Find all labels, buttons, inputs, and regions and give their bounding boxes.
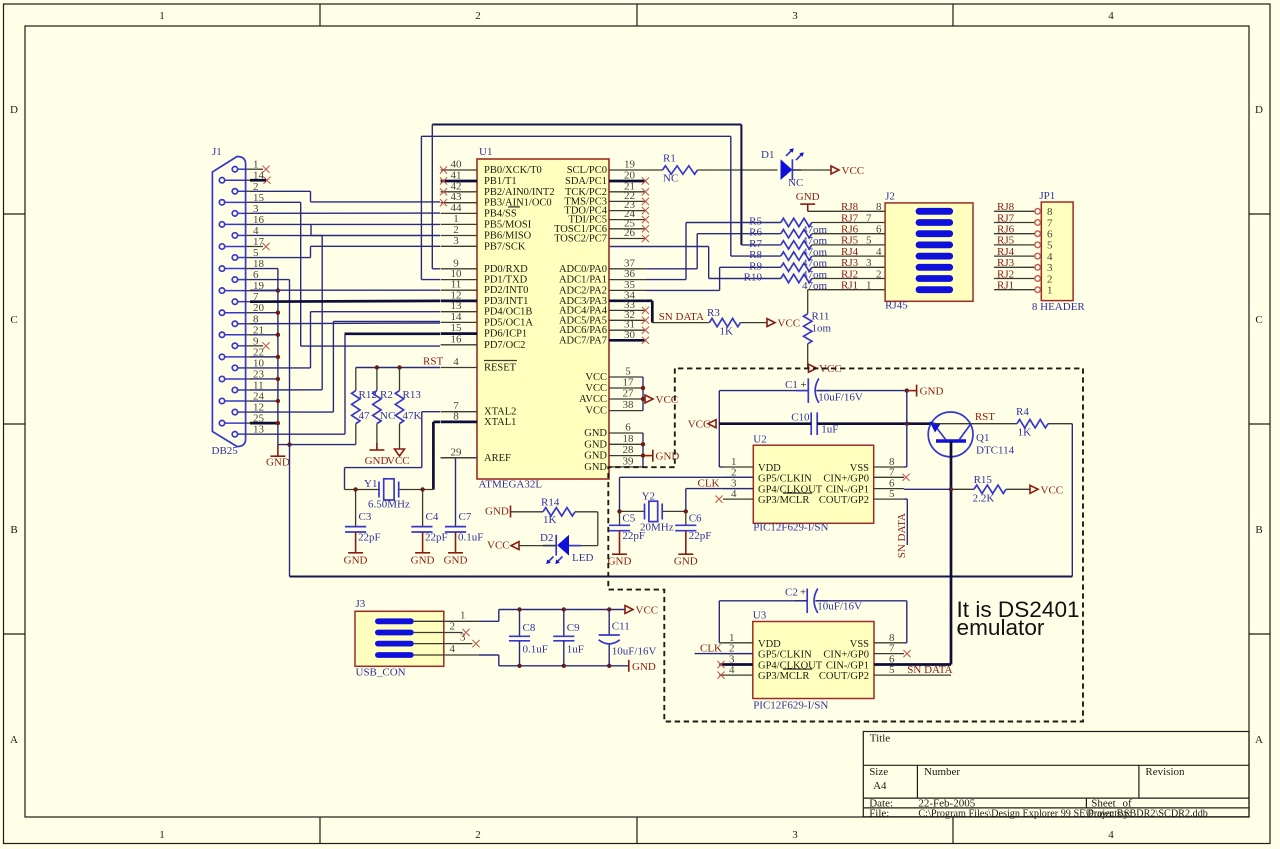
svg-text:1: 1 [460, 609, 466, 621]
wire RESET net [356, 367, 440, 369]
wire XTAL1 to Y1 right (thick) [433, 421, 440, 424]
svg-text:GND: GND [674, 556, 698, 568]
svg-text:2.2K: 2.2K [973, 493, 995, 505]
svg-text:1K: 1K [543, 514, 557, 526]
J1 pin 11 [232, 387, 237, 392]
svg-text:COUT/GP2: COUT/GP2 [819, 671, 869, 682]
U2 pin 2 [723, 476, 753, 478]
resistor R13 47K [399, 368, 401, 391]
J3 contact bar pin 3 [375, 641, 414, 647]
crystal Y1 6.50MHz [345, 489, 380, 491]
svg-text:J2: J2 [885, 191, 895, 203]
U2 pin 8 [874, 466, 904, 468]
svg-text:RESET: RESET [484, 363, 517, 374]
resistor R8 47om [731, 255, 781, 257]
U1 pin 38 VCC [609, 410, 643, 412]
svg-text:Number: Number [924, 766, 960, 778]
U1 pin 25 TOSC1/PC6 [609, 228, 645, 230]
JP1 pin 6 RJ6 [994, 233, 1035, 235]
ground symbol C7 [448, 552, 463, 554]
svg-text:14: 14 [451, 311, 463, 323]
wire RJ1 row from R11 [808, 289, 885, 291]
svg-text:XTAL1: XTAL1 [484, 417, 516, 428]
svg-text:RST: RST [975, 411, 995, 423]
U1 pin 40 PB0/XCK/T0 [441, 169, 477, 171]
svg-text:C1: C1 [785, 379, 798, 391]
J1 pin 24 [219, 398, 224, 403]
svg-text:CIN-/GP1: CIN-/GP1 [826, 485, 869, 496]
resistor R15 2.2K [951, 488, 974, 490]
svg-text:TOSC2/PC7: TOSC2/PC7 [554, 234, 607, 245]
U2 pin 7 [874, 476, 904, 478]
svg-text:RJ2: RJ2 [841, 268, 858, 280]
svg-text:PB7/SCK: PB7/SCK [484, 241, 526, 252]
svg-text:B: B [10, 524, 17, 536]
U3 pin 8 [874, 642, 904, 644]
wire AREF to C7 [441, 457, 477, 459]
wire J3.4 to GND row [414, 654, 479, 656]
resistor R10 47om [709, 278, 781, 280]
J2 contact bar [916, 208, 954, 215]
wire J1.12 to U1.14 [250, 411, 333, 413]
svg-text:VCC: VCC [487, 540, 510, 552]
svg-text:7: 7 [866, 212, 872, 224]
U3 pin 2 [719, 653, 753, 655]
svg-text:22pF: 22pF [425, 532, 448, 544]
J2 contact bar [916, 286, 954, 293]
svg-text:GND: GND [608, 556, 632, 568]
capacitor C3 22pF [355, 490, 357, 527]
svg-text:3: 3 [1047, 262, 1053, 274]
svg-text:10uF/16V: 10uF/16V [818, 392, 863, 404]
svg-text:NC: NC [788, 177, 803, 189]
svg-text:39: 39 [623, 455, 635, 467]
svg-text:GND: GND [344, 555, 368, 567]
wire J1.10 to U1.13 [250, 367, 311, 369]
svg-text:GND: GND [365, 455, 389, 467]
svg-text:NC: NC [663, 173, 678, 185]
svg-text:R9: R9 [749, 260, 762, 272]
svg-text:D2: D2 [540, 532, 553, 544]
svg-text:RJ45: RJ45 [885, 300, 908, 312]
resistor R5 47om [686, 222, 781, 224]
svg-text:4: 4 [1108, 10, 1114, 22]
U3 pin 7 [874, 653, 904, 655]
U1 pin 37 ADC0/PA0 [609, 268, 645, 270]
svg-text:RJ6: RJ6 [841, 224, 859, 236]
U1 pin 13 PD4/OC1B [441, 311, 477, 313]
svg-text:5: 5 [889, 664, 895, 676]
capacitor C5 22pF [619, 511, 621, 524]
svg-text:GND: GND [266, 457, 290, 469]
power port VCC below R11 [809, 364, 817, 372]
wire VSS vertical [906, 391, 908, 467]
svg-text:C11: C11 [612, 621, 630, 633]
svg-text:8 HEADER: 8 HEADER [1032, 301, 1086, 313]
U2 pin 3 [723, 488, 753, 490]
svg-text:4: 4 [1108, 829, 1114, 841]
U1 pin 16 PD7/OC2 [441, 344, 477, 346]
J1 pin 21 [219, 332, 224, 337]
svg-text:DTC114: DTC114 [976, 445, 1015, 457]
wire top RXD down to R7 (thick) [740, 125, 742, 245]
svg-text:CIN+/GP0: CIN+/GP0 [823, 473, 869, 484]
svg-text:C7: C7 [459, 511, 472, 523]
U1 pin 36 ADC1/PA1 [609, 279, 645, 281]
svg-text:Title: Title [870, 732, 891, 744]
svg-text:USB_CON: USB_CON [356, 667, 406, 679]
svg-text:C4: C4 [426, 511, 439, 523]
J1 pin 3 [232, 211, 237, 216]
U1 pin 43 PB3/AIN1/OC0 [441, 202, 477, 204]
resistor R2 NC [376, 368, 378, 391]
svg-text:10uF/16V: 10uF/16V [817, 600, 862, 612]
resistor R6 47om [697, 233, 781, 235]
wire U2 VDD [718, 391, 720, 467]
svg-text:RJ7: RJ7 [997, 212, 1015, 224]
chip U1 ATMEGA32L body [477, 159, 609, 479]
J1 pin 8 [232, 321, 237, 326]
svg-text:GP5/CLKIN: GP5/CLKIN [758, 473, 812, 484]
svg-text:PD4/OC1B: PD4/OC1B [484, 307, 532, 318]
svg-text:PB2/AIN0/INT2: PB2/AIN0/INT2 [484, 187, 555, 198]
U1 pin 14 PD5/OC1A [441, 321, 477, 323]
svg-text:R7: R7 [749, 238, 762, 250]
J1 pin 20 [219, 310, 224, 315]
wire J1.2 to U1.43 [250, 190, 311, 192]
svg-text:NC: NC [380, 410, 395, 422]
U2 pin 1 [723, 466, 753, 468]
svg-text:PB0/XCK/T0: PB0/XCK/T0 [484, 165, 542, 176]
wire J1.15 to U1.16 [250, 201, 301, 203]
svg-text:SDA/PC1: SDA/PC1 [565, 176, 607, 187]
svg-text:SCL/PC0: SCL/PC0 [567, 165, 607, 176]
svg-text:1uF: 1uF [567, 644, 584, 656]
resistor R7 47om [741, 244, 780, 246]
svg-text:U3: U3 [753, 610, 767, 622]
wire J1.16 jog to U1.2 [310, 224, 312, 235]
wire J1.6 down to bottom rail [250, 279, 290, 281]
svg-text:R2: R2 [380, 389, 393, 401]
wire bottom rail to R4/RST [290, 575, 1073, 577]
svg-text:RJ3: RJ3 [841, 257, 859, 269]
svg-text:VDD: VDD [758, 639, 781, 650]
U1 pin 24 TDI/PC5 [609, 219, 645, 221]
svg-text:Size: Size [869, 766, 888, 778]
svg-text:PD7/OC2: PD7/OC2 [484, 340, 525, 351]
svg-text:R10: R10 [744, 272, 763, 284]
wire C1 left [719, 390, 808, 392]
svg-text:VCC: VCC [688, 419, 711, 431]
J1 pin 23 [219, 376, 224, 381]
svg-text:R4: R4 [1016, 406, 1029, 418]
J3 contact bar pin 2 [375, 630, 414, 636]
resistor R12 47 [355, 368, 357, 391]
JP1 pin 1 RJ1 [994, 289, 1035, 291]
svg-text:ADC7/PA7: ADC7/PA7 [559, 335, 607, 346]
connector JP1 8 HEADER [1041, 202, 1073, 301]
svg-text:28: 28 [623, 444, 635, 456]
svg-text:VCC: VCC [842, 165, 865, 177]
svg-text:U1: U1 [479, 146, 492, 158]
svg-text:ADC2/PA2: ADC2/PA2 [559, 285, 607, 296]
ground symbol C3 [348, 552, 363, 554]
svg-text:Y1: Y1 [364, 478, 377, 490]
svg-text:PB5/MOSI: PB5/MOSI [484, 219, 532, 230]
svg-text:5: 5 [1047, 240, 1053, 252]
svg-text:4: 4 [876, 246, 882, 258]
svg-text:PD6/ICP1: PD6/ICP1 [484, 329, 527, 340]
J1 pin 1 [232, 167, 237, 172]
U1 pin 35 ADC2/PA2 [609, 289, 645, 291]
svg-text:GND: GND [656, 451, 680, 463]
svg-text:GND: GND [632, 661, 656, 673]
wire U1.15 thick [345, 332, 441, 335]
svg-text:6: 6 [625, 422, 631, 434]
svg-text:emulator: emulator [957, 615, 1045, 640]
dashed emulator box [608, 368, 1083, 721]
svg-text:SN DATA: SN DATA [659, 311, 704, 323]
J1 pin 13 [232, 432, 237, 437]
svg-text:RJ5: RJ5 [997, 235, 1015, 247]
U1 pin 4 RESET [441, 367, 477, 369]
JP1 pin 8 RJ8 [994, 210, 1035, 212]
svg-text:GND: GND [584, 439, 607, 450]
svg-text:VCC: VCC [1041, 484, 1064, 496]
svg-text:GND: GND [796, 191, 820, 203]
U3 pin 6 [874, 663, 904, 666]
svg-text:0.1uF: 0.1uF [458, 532, 483, 544]
U1 pin 6 GND [609, 432, 643, 434]
wire J1.16 to U1.1 [250, 223, 440, 225]
svg-text:RJ7: RJ7 [841, 212, 859, 224]
svg-text:15: 15 [451, 322, 463, 334]
U3 pin 3 [719, 663, 753, 666]
svg-text:Drawn By:: Drawn By: [1086, 808, 1131, 819]
svg-text:DB25: DB25 [212, 445, 239, 457]
svg-text:5: 5 [889, 488, 895, 500]
U1 pin 34 ADC3/PA3 [609, 299, 645, 302]
J2 contact bar [916, 264, 954, 271]
J1 pin 12 [232, 409, 237, 414]
svg-text:PIC12F629-I/SN: PIC12F629-I/SN [753, 700, 828, 712]
wire RJ8 row [808, 210, 885, 212]
svg-text:18: 18 [623, 433, 635, 445]
svg-text:4: 4 [1047, 251, 1053, 263]
svg-text:C10: C10 [791, 412, 810, 424]
svg-text:SN DATA: SN DATA [907, 664, 952, 676]
wire J1 pin 19 to GND bus [250, 290, 278, 292]
svg-text:2: 2 [475, 10, 481, 22]
svg-text:27: 27 [623, 388, 635, 400]
J1 pin 10 [232, 365, 237, 370]
svg-text:R14: R14 [541, 497, 560, 509]
svg-text:D: D [10, 104, 18, 116]
U1 pin 41 PB1/T1 [441, 180, 477, 183]
svg-text:PD5/OC1A: PD5/OC1A [484, 317, 533, 328]
wire J1 pin 25 to GND bus [250, 422, 278, 425]
U1 pin 10 PD1/TXD [441, 279, 477, 281]
svg-text:3: 3 [453, 235, 459, 247]
JP1 pin 7 RJ7 [994, 222, 1035, 224]
svg-text:22pF: 22pF [622, 530, 645, 542]
svg-text:AVCC: AVCC [579, 394, 607, 405]
svg-text:26: 26 [624, 227, 636, 239]
svg-text:File:: File: [869, 807, 889, 819]
U1 pin 28 GND [609, 455, 643, 457]
no-connect U2 pin 7 [902, 474, 909, 481]
svg-text:VCC: VCC [636, 605, 659, 617]
U1 pin 30 ADC7/PA7 [609, 339, 645, 342]
svg-text:RST: RST [423, 356, 443, 368]
wire J1.7 to U1.12 thick [250, 300, 440, 303]
power symbol VCC below R13 [395, 449, 405, 456]
svg-text:38: 38 [623, 399, 635, 411]
thick stub J1 pin 14 [250, 179, 266, 182]
no-connect J3.3 [414, 643, 473, 645]
resistor R9 47om [720, 266, 781, 268]
svg-text:D1: D1 [761, 149, 774, 161]
svg-text:PD2/INT0: PD2/INT0 [484, 285, 528, 296]
J2 contact bar [916, 219, 954, 226]
svg-text:6: 6 [876, 224, 882, 236]
svg-text:D: D [1255, 104, 1263, 116]
ground symbol R2 [376, 443, 378, 450]
U1 pin 31 ADC6/PA6 [609, 329, 645, 331]
J2 contact bar [916, 253, 954, 260]
wire Q1 base down [950, 441, 953, 665]
svg-text:6: 6 [1047, 229, 1053, 241]
svg-text:5: 5 [866, 235, 872, 247]
U1 pin 26 TOSC2/PC7 [609, 238, 645, 240]
U1 pin 19 SCL/PC0 [609, 169, 645, 171]
wire XTAL2 to Y1 left [422, 411, 440, 413]
svg-text:22pF: 22pF [689, 530, 712, 542]
svg-text:U2: U2 [753, 434, 766, 446]
wire U1.35 to R9 [645, 289, 719, 291]
svg-text:1uF: 1uF [821, 423, 838, 435]
svg-text:Q1: Q1 [976, 432, 989, 444]
U1 pin 1 PB5/MOSI [441, 223, 477, 225]
svg-text:VCC: VCC [585, 406, 607, 417]
J1 pin 16 [219, 222, 224, 227]
wire J1 pin 20 to GND bus [250, 312, 278, 314]
J1 pin 2 [232, 189, 237, 194]
svg-text:2: 2 [731, 466, 737, 478]
svg-text:22pF: 22pF [358, 532, 381, 544]
svg-text:GND: GND [584, 451, 607, 462]
wire C2 right to U3 VSS [815, 600, 906, 602]
svg-text:A: A [10, 734, 18, 746]
svg-text:+: + [800, 588, 806, 599]
svg-text:4: 4 [450, 643, 456, 655]
svg-text:VCC: VCC [585, 372, 607, 383]
svg-text:GND: GND [485, 506, 509, 518]
wire U3.6 to Q1 base (thick) [904, 663, 951, 666]
svg-text:CLK: CLK [698, 477, 720, 489]
power port VCC at U1 [645, 395, 653, 403]
wire GND bus to R12 bottom [278, 444, 356, 446]
title block [863, 732, 1249, 817]
svg-text:VSS: VSS [850, 639, 869, 650]
J1 pin 15 [219, 200, 224, 205]
J1 pin 6 [232, 277, 237, 282]
wire U1.11 [250, 289, 440, 291]
svg-text:C8: C8 [523, 622, 536, 634]
svg-text:GP5/CLKIN: GP5/CLKIN [758, 650, 812, 661]
svg-text:6.50MHz: 6.50MHz [368, 499, 410, 511]
svg-text:VCC: VCC [585, 383, 607, 394]
svg-text:GND: GND [444, 555, 468, 567]
svg-text:AREF: AREF [484, 453, 511, 464]
svg-text:C5: C5 [622, 513, 635, 525]
U1 pin 33 ADC4/PA4 [609, 309, 645, 311]
svg-text:C6: C6 [689, 513, 702, 525]
svg-text:GND: GND [584, 462, 607, 473]
svg-text:16: 16 [451, 333, 463, 345]
svg-text:RJ5: RJ5 [841, 235, 859, 247]
U1 pin 44 PB4/SS [441, 212, 477, 214]
svg-text:RJ4: RJ4 [997, 246, 1015, 258]
svg-text:RJ1: RJ1 [997, 280, 1014, 292]
U2 pin 5 [874, 498, 904, 500]
svg-text:RJ2: RJ2 [997, 268, 1014, 280]
U1 pin 12 PD3/INT1 [441, 300, 477, 303]
capacitor C8 0.1uF [519, 610, 521, 636]
JP1 pin 2 RJ2 [994, 278, 1035, 280]
J1 pin 5 [232, 255, 237, 260]
J2 contact bar [916, 230, 954, 237]
wire J3.1 to VCC row [414, 620, 479, 622]
svg-text:SN DATA: SN DATA [896, 513, 908, 558]
ground port C1 [907, 390, 917, 392]
resistor R1 NC [645, 169, 662, 171]
wire U1.34 SN DATA (thick) [645, 299, 652, 302]
no-connect marks on J1 pins 1,14,17,9 [250, 168, 263, 170]
J1 pin 14 [219, 178, 224, 183]
no-connect U3 pins 3,4 [717, 661, 724, 668]
svg-text:PB4/SS: PB4/SS [484, 208, 517, 219]
svg-text:8: 8 [453, 410, 459, 422]
ground symbol C5 [612, 553, 627, 555]
no-connect U2 pin 4 [715, 496, 722, 503]
resistor R14 1K [543, 508, 575, 516]
J1 pin 9 [232, 343, 237, 348]
transistor Q1 DTC114 [928, 412, 973, 457]
svg-text:2: 2 [450, 621, 456, 633]
chip U2 PIC12F629-I/SN [753, 445, 873, 523]
U3 pin 1 [719, 642, 753, 644]
svg-text:RJ8: RJ8 [997, 201, 1015, 213]
svg-text:PIC12F629-I/SN: PIC12F629-I/SN [753, 522, 828, 534]
wire J1.13 to U1.15 via x=345 [344, 334, 346, 434]
U1 pin 8 XTAL1 [441, 421, 477, 424]
capacitor C6 22pF [685, 511, 687, 524]
U3 pin 5 [874, 674, 904, 676]
wire Q1 collector to R4 [933, 423, 1017, 425]
ground symbol J1 bus [277, 445, 279, 457]
svg-text:ADC1/PA1: ADC1/PA1 [559, 275, 607, 286]
svg-text:JP1: JP1 [1039, 190, 1055, 202]
power port VCC after R15 [1030, 485, 1038, 493]
svg-text:30: 30 [624, 329, 636, 341]
power port VCC after R3 [767, 319, 775, 327]
svg-text:2: 2 [1047, 273, 1053, 285]
svg-text:RJ6: RJ6 [997, 224, 1015, 236]
svg-text:RJ8: RJ8 [841, 201, 859, 213]
svg-text:2: 2 [475, 829, 481, 841]
power port VCC J3 [625, 606, 633, 614]
